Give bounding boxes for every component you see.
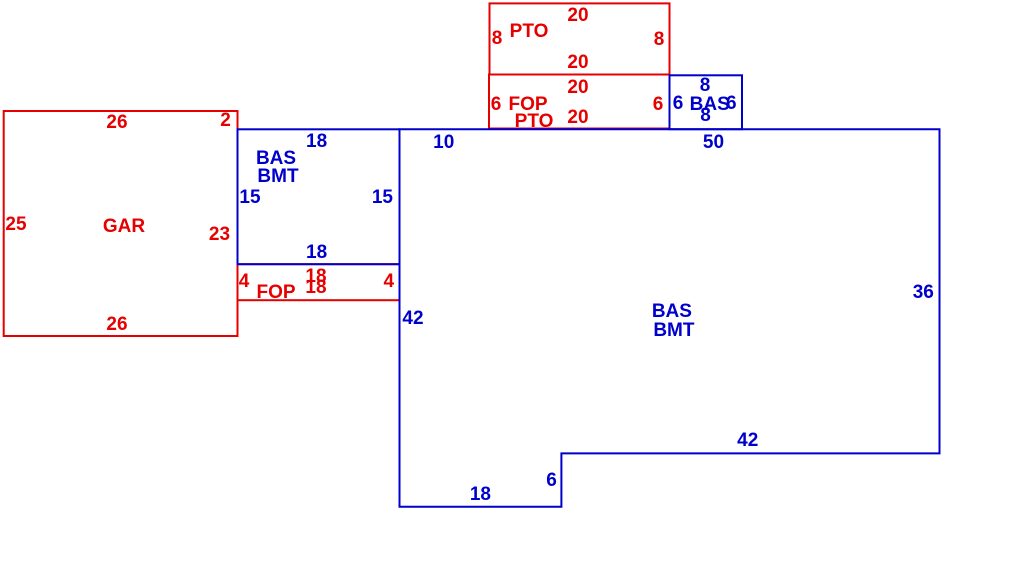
room PTO (upper patio) outline	[490, 3, 670, 74]
room BAS BMT (main basement) outline polygon	[400, 129, 940, 507]
svg-text:15: 15	[372, 187, 394, 208]
room BAS (small basement) outline	[670, 75, 743, 129]
svg-text:8: 8	[700, 105, 711, 126]
svg-text:8: 8	[654, 29, 665, 50]
svg-text:20: 20	[567, 107, 588, 128]
svg-text:4: 4	[384, 271, 395, 292]
svg-text:BAS: BAS	[652, 301, 692, 322]
svg-text:42: 42	[402, 308, 423, 329]
svg-text:8: 8	[492, 28, 503, 49]
svg-text:BMT: BMT	[257, 166, 299, 187]
svg-text:6: 6	[546, 470, 557, 491]
svg-text:15: 15	[239, 187, 261, 208]
svg-text:8: 8	[700, 75, 711, 96]
svg-text:36: 36	[913, 282, 934, 303]
room FOP PTO (porch) outline	[489, 75, 670, 129]
svg-text:23: 23	[209, 224, 230, 245]
svg-text:18: 18	[305, 277, 326, 298]
svg-text:FOP: FOP	[256, 282, 295, 303]
svg-text:6: 6	[726, 93, 737, 114]
svg-text:25: 25	[5, 214, 27, 235]
svg-text:18: 18	[306, 131, 327, 152]
svg-text:18: 18	[470, 484, 491, 505]
svg-text:18: 18	[306, 242, 327, 263]
svg-text:4: 4	[239, 271, 250, 292]
svg-text:6: 6	[653, 94, 664, 115]
svg-text:GAR: GAR	[103, 216, 146, 237]
svg-text:6: 6	[491, 94, 502, 115]
room GAR (garage) outline	[4, 111, 238, 336]
svg-text:20: 20	[567, 5, 588, 26]
svg-text:26: 26	[106, 314, 127, 335]
room FOP (front open porch) outline	[238, 264, 400, 300]
svg-text:42: 42	[737, 430, 758, 451]
svg-text:10: 10	[433, 132, 454, 153]
svg-text:26: 26	[106, 112, 127, 133]
svg-text:20: 20	[567, 77, 588, 98]
svg-text:BMT: BMT	[653, 320, 695, 341]
svg-text:6: 6	[673, 93, 684, 114]
room BAS BMT (small basement section) outline	[238, 129, 400, 264]
svg-text:2: 2	[220, 110, 231, 131]
svg-text:20: 20	[567, 52, 588, 73]
svg-text:50: 50	[703, 132, 724, 153]
svg-text:PTO: PTO	[510, 21, 549, 42]
